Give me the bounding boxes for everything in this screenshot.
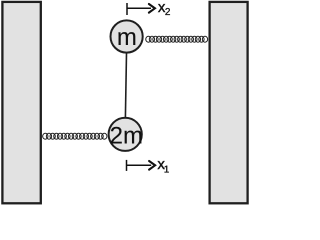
x1 reference tick xyxy=(126,160,128,171)
left wall xyxy=(2,2,40,203)
x2 arrowhead xyxy=(149,4,155,13)
mass 2m xyxy=(109,118,142,151)
x1 arrowhead xyxy=(149,161,155,170)
x2 arrow shaft xyxy=(127,7,151,9)
spring from left wall to mass 2m xyxy=(43,133,107,139)
mass m xyxy=(111,20,143,52)
x2 label xyxy=(158,0,171,18)
x2 reference tick xyxy=(126,3,128,15)
spring from mass m to right wall xyxy=(146,36,208,42)
label m xyxy=(117,24,137,51)
svg-text:2m: 2m xyxy=(110,122,143,149)
label 2m xyxy=(110,122,143,149)
svg-text:m: m xyxy=(117,24,137,51)
svg-text:1: 1 xyxy=(164,164,170,175)
right wall xyxy=(210,2,248,203)
x1 label xyxy=(157,156,169,175)
svg-text:2: 2 xyxy=(165,7,171,18)
rod connecting mass m and mass 2m xyxy=(125,53,126,117)
x1 arrow shaft xyxy=(127,164,152,166)
